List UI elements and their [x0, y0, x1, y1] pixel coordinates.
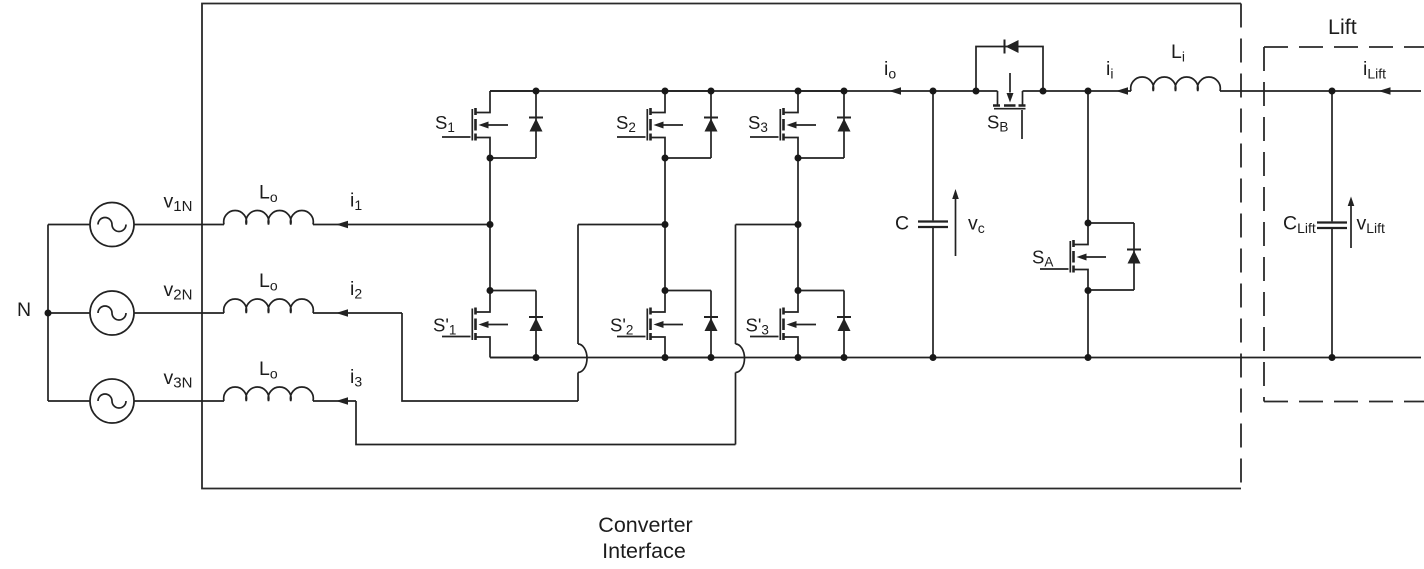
svg-text:S'2: S'2 [610, 315, 633, 338]
svg-text:i3: i3 [350, 366, 362, 390]
svg-text:S3: S3 [748, 112, 768, 135]
svg-text:Lift: Lift [1328, 15, 1357, 39]
svg-text:i1: i1 [350, 190, 362, 214]
svg-text:v2N: v2N [164, 279, 193, 304]
svg-text:N: N [17, 299, 31, 321]
svg-text:S'1: S'1 [433, 315, 456, 338]
svg-text:S'3: S'3 [746, 315, 769, 338]
svg-text:CLift: CLift [1283, 213, 1316, 237]
svg-text:SA: SA [1032, 247, 1053, 270]
svg-text:i2: i2 [350, 278, 362, 302]
svg-text:vLift: vLift [1357, 213, 1386, 237]
svg-text:Interface: Interface [602, 539, 686, 563]
svg-text:v3N: v3N [164, 367, 193, 392]
svg-text:io: io [884, 58, 896, 82]
svg-text:S1: S1 [435, 112, 455, 135]
svg-text:C: C [895, 213, 909, 235]
svg-text:Lo: Lo [259, 270, 278, 294]
svg-text:SB: SB [987, 112, 1008, 135]
svg-text:Lo: Lo [259, 182, 278, 206]
svg-text:vc: vc [968, 212, 985, 236]
svg-text:Li: Li [1171, 41, 1185, 65]
svg-text:ii: ii [1106, 58, 1113, 82]
svg-text:Lo: Lo [259, 358, 278, 382]
svg-text:Converter: Converter [598, 513, 692, 537]
svg-text:v1N: v1N [164, 191, 193, 216]
svg-text:iLift: iLift [1363, 58, 1386, 82]
svg-text:S2: S2 [616, 112, 636, 135]
